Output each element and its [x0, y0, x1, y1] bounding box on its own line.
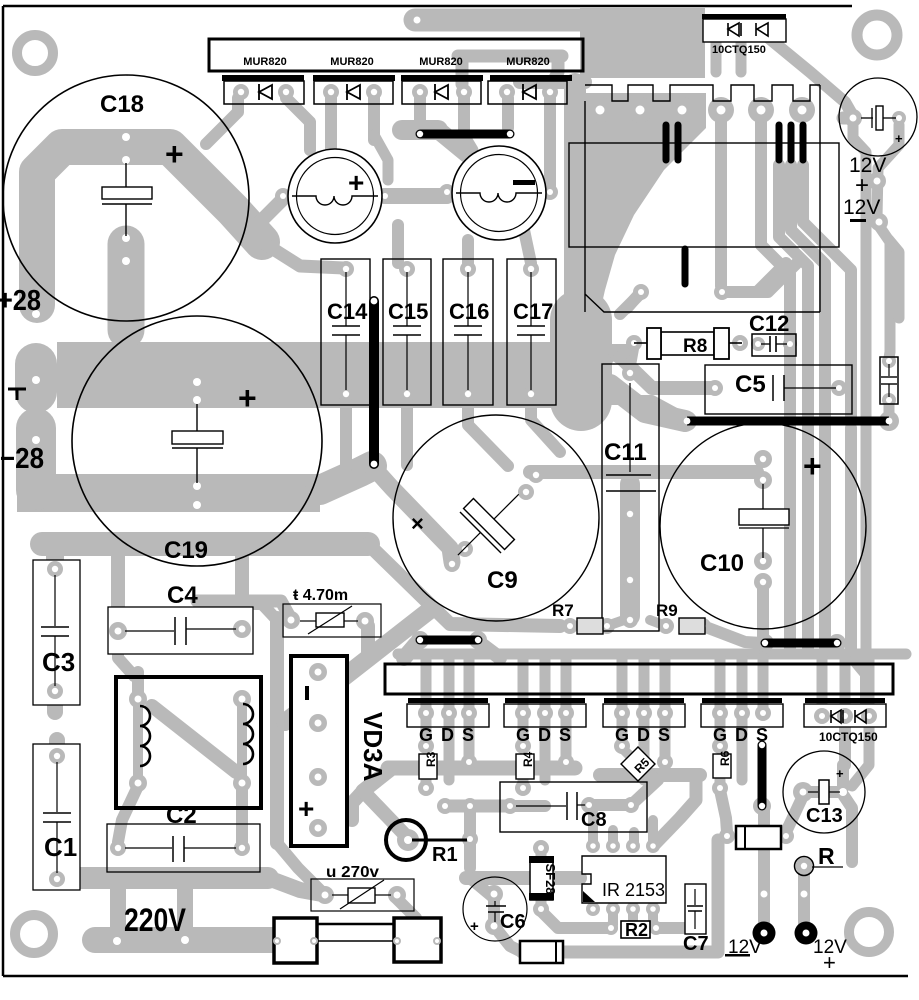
capacitor C7 [683, 884, 709, 955]
wire C8 pads to IR pins [588, 812, 598, 844]
wire between rectifier circles [385, 188, 447, 204]
svg-text:IR 2153: IR 2153 [602, 880, 665, 900]
svg-text:MUR820: MUR820 [243, 56, 286, 68]
wire IR bottom pins [608, 909, 618, 925]
svg-text:S: S [462, 725, 474, 745]
wire T pads down to C2 [118, 786, 138, 842]
wire band at jumper1 [402, 120, 438, 140]
svg-text:C6: C6 [500, 911, 526, 933]
capacitor C2 [107, 824, 260, 872]
diode SF28 [529, 856, 558, 900]
svg-text:+: + [470, 918, 479, 935]
wire R9 right pad to jumper4 [703, 626, 762, 643]
wire MUR pad6 to - circle [464, 135, 473, 150]
C4 pads [109, 622, 127, 640]
wire varistor right pad to fuse [397, 899, 416, 918]
wire MUR D1 pad1 to arch [206, 98, 238, 144]
wire n-band under diode header [458, 50, 562, 63]
C5 pads [707, 380, 723, 396]
capacitor right edge small [880, 357, 898, 404]
wire MUR D2 pad2 down [368, 98, 380, 140]
wire MUR D1 pad2 down [286, 98, 310, 150]
wire verticals below C5 through C10 [784, 428, 796, 652]
C13 pads [793, 782, 813, 802]
diode VD3 MUR820 [401, 75, 483, 104]
svg-text:C7: C7 [683, 933, 709, 955]
wire C9 plate band through C11 to C10 [530, 465, 757, 479]
R2 C7 pads [604, 921, 618, 935]
wire MUR D4 pad1 to jumper [502, 98, 514, 128]
wire diode pad to C13 [786, 798, 802, 832]
wire C13 left pad band [806, 786, 838, 798]
svg-text:+: + [895, 131, 903, 146]
wire arch to C14 pad [262, 242, 344, 268]
wire R2 right pad to C7 [656, 922, 686, 934]
transistor VT1 pads block [407, 698, 489, 745]
wire band A taper end [598, 344, 630, 378]
FET pin pads row2 [418, 738, 434, 754]
S4 jumper bottom pad [753, 797, 771, 815]
svg-text:S: S [559, 725, 571, 745]
wire -28 stub [16, 428, 56, 490]
label MUR820 x4 [243, 56, 549, 68]
wire sec bar traces through C5 [779, 165, 808, 425]
svg-text:D: D [538, 725, 551, 745]
10CTQ150 top pads [708, 21, 724, 37]
wire transformer bottom-left blob to band A [550, 320, 612, 400]
jumper wire 3 (long black) [687, 417, 889, 426]
capacitor 12V electrolytic circle [839, 78, 917, 156]
jumper wire 6 (black) [420, 636, 478, 645]
capacitor C12 [749, 311, 796, 356]
svg-text:C17: C17 [513, 299, 553, 324]
wire transformer pin5 down through C5 [761, 115, 790, 425]
wire SF28 pad to R2 row [541, 911, 612, 928]
svg-text:S: S [658, 725, 670, 745]
wire C8 right pad diag up [631, 780, 658, 805]
C6 pads [485, 885, 503, 903]
svg-text:G: G [615, 725, 629, 745]
resistor R4 [516, 751, 535, 779]
wire band B diag to C9 pads [374, 468, 452, 562]
R node pad [796, 858, 813, 875]
wire MUR D4 pad2 down [544, 98, 556, 186]
capacitor C10 symbol [739, 484, 789, 558]
220V pads [106, 930, 128, 952]
jumper wire 5 (S4 black) [758, 745, 767, 806]
svg-text:C15: C15 [388, 299, 428, 324]
wire MUR D3 pad1 to jumper [414, 98, 426, 128]
wire pad row below transformer [620, 292, 642, 314]
C1 pads [49, 748, 65, 764]
resistor R2 [621, 920, 650, 940]
wire C13 right pad up [837, 765, 849, 788]
svg-text:+: + [165, 136, 184, 172]
wire through C6 [488, 898, 500, 922]
wire jumper6 right pad stub [480, 643, 500, 658]
wire MUR D3 pad2 down [458, 98, 470, 140]
rectifier bridge - (fuse style circle) [452, 146, 546, 240]
wire transformer pin4 down [715, 115, 727, 286]
jumper wire 1 (black) [420, 130, 510, 139]
wire diag to R1 pad [363, 791, 408, 838]
diode VD1 MUR820 [222, 75, 304, 104]
resistor R5 (diamond) [621, 747, 655, 781]
svg-text:C13: C13 [806, 805, 843, 827]
svg-text:D: D [735, 725, 748, 745]
wire 10CTQ150 top pads down [711, 35, 722, 72]
capacitor C1 [33, 744, 80, 890]
wire 12V cap left pad long vertical [853, 122, 866, 688]
wire R6 pad to diode D2 [720, 790, 727, 832]
wire band F stubs to 10CTQ pads [817, 658, 828, 712]
wire SF28 column [536, 852, 547, 905]
svg-text:R7: R7 [552, 601, 574, 620]
transistor VT4 pads block [701, 698, 783, 745]
diode VD2 MUR820 [313, 75, 395, 104]
capacitor C10 outline [660, 423, 866, 629]
via stub pad under jumper2 [362, 452, 386, 476]
wire to C15 pad [392, 225, 404, 263]
wire heatsink stubs to FET pins [421, 658, 432, 710]
coil primary [140, 706, 150, 766]
R8 pads [626, 335, 642, 351]
wire 12V cap right pad chain [877, 125, 899, 218]
wire connecting column [110, 880, 126, 936]
wire 10CTQ pad down right of C13 [852, 720, 869, 786]
wire VD3A col top link [246, 604, 277, 620]
resistor R1 (wire loop) [386, 820, 467, 866]
svg-text:C12: C12 [749, 311, 789, 336]
wire C14-C17 bottom stubs [340, 400, 352, 468]
jumper wire 2 (black vertical) [369, 301, 379, 464]
wire transformer left vertical [564, 84, 586, 335]
mounting hole top-right [857, 15, 897, 55]
capacitor C11 box [602, 364, 659, 631]
wire C4 left pad to T pad [118, 638, 134, 676]
coil secondary [243, 704, 253, 764]
capacitor C18 outline [3, 75, 249, 321]
capacitor C19 symbol [172, 404, 223, 483]
transformer T pads [129, 690, 147, 708]
wire pads row y806 [445, 800, 510, 813]
wire vertical right of C7 [712, 840, 725, 952]
resistor R7 body [577, 618, 603, 634]
wire C10 bottom pads to jumper4 [757, 586, 769, 640]
diode near C13 [736, 826, 781, 849]
svg-text:+: + [238, 380, 257, 416]
svg-text:MUR820: MUR820 [506, 56, 549, 68]
diode symbols in MUR820 boxes [259, 84, 536, 100]
diode D pads [719, 828, 735, 844]
svg-text:C5: C5 [735, 371, 766, 398]
right cap pads [882, 354, 896, 368]
wire pad row below transformer [627, 292, 641, 308]
svg-text:10CTQ150: 10CTQ150 [819, 730, 878, 744]
node R (wire link) [795, 843, 844, 876]
C14-C17 pads [338, 261, 354, 277]
wire C8 left internal [510, 800, 545, 812]
svg-text:D: D [637, 725, 650, 745]
terminal 12V+ (black pad) [795, 922, 818, 945]
svg-text:R6: R6 [718, 750, 732, 766]
wire C18 bottom stub [108, 244, 145, 330]
transistor VT3 pads block [603, 698, 685, 745]
capacitor C6 [463, 877, 527, 941]
svg-text:+: + [803, 448, 822, 484]
wire diag inside T [152, 706, 236, 772]
resistor R9 body [679, 618, 705, 634]
wire 220V pad column [177, 888, 193, 934]
resistor R8 [634, 328, 742, 359]
capacitor C13 [783, 751, 865, 833]
wire band B corner to via stub [320, 466, 372, 490]
transformer TR outer outline (castellated) [585, 85, 820, 312]
svg-text:ŧ 4.70m: ŧ 4.70m [293, 587, 348, 604]
svg-text:+28: +28 [0, 285, 41, 317]
svg-text:−28: −28 [0, 443, 44, 475]
wire to C6 top pad [470, 878, 494, 898]
wire C11 internal vertical [620, 484, 640, 616]
pads near C8 [437, 798, 453, 814]
svg-text:R9: R9 [656, 601, 678, 620]
C3 pads [47, 561, 63, 577]
wire 4.70m right pad down [361, 626, 375, 660]
VD3A pads [309, 663, 327, 681]
svg-text:10CTQ150: 10CTQ150 [712, 44, 766, 56]
wire diag bundle C9 to transformer T [285, 610, 430, 722]
wire stubs below gate resistors [421, 780, 432, 788]
capacitor C3 [33, 560, 80, 705]
capacitor C14 [321, 259, 370, 405]
fuse FU1 [274, 918, 441, 963]
svg-text:R4: R4 [521, 751, 535, 767]
wire T pads up [132, 672, 144, 697]
svg-text:C1: C1 [44, 832, 77, 862]
svg-text:G: G [713, 725, 727, 745]
wire band E under FETs [388, 761, 575, 776]
svg-text:R: R [818, 843, 835, 869]
10CTQ150 bottom pads [814, 708, 830, 724]
svg-text:R8: R8 [683, 336, 707, 357]
jumper4 end pads [756, 634, 774, 652]
svg-text:C3: C3 [42, 647, 75, 677]
wire R8 pad to C11 top pad [630, 346, 634, 368]
wire transformer pin6 down right of C5 [803, 165, 851, 418]
capacitor C9 diagonal symbol [437, 474, 539, 576]
capacitor C8 [500, 782, 647, 832]
wire band C to C4 right pad [235, 550, 249, 623]
svg-text:+: + [855, 172, 869, 199]
wire band C to C4 left pad [111, 550, 125, 625]
svg-text:+: + [836, 766, 844, 781]
diode pair 10CTQ150 bottom [804, 698, 886, 744]
svg-text:G: G [419, 725, 433, 745]
mounting hole top-left [17, 35, 53, 71]
wire R7 right pad link [607, 620, 624, 626]
wire band A diag to C5 left pad [615, 352, 713, 388]
ground symbol [8, 389, 26, 400]
wire jumper6 left pad stub [404, 644, 416, 658]
wire band F above heatsink [398, 649, 906, 660]
wire top blob above transformer [580, 8, 705, 78]
SF28 pads [533, 840, 549, 856]
svg-text:VD3A: VD3A [358, 712, 388, 782]
C10 pads [754, 450, 772, 468]
wire to C17 pad [524, 230, 531, 263]
wire MUR D2 pad1 down [325, 98, 337, 152]
wire R5 leads [622, 748, 658, 780]
varistor box [311, 879, 414, 911]
wire C3 top stub [46, 552, 64, 572]
wire band C (C3 to R7 trace) [42, 532, 368, 556]
wire IR pin4 diag [653, 780, 696, 846]
wire 4.70m left pad link [197, 601, 291, 619]
capacitor C15 [383, 259, 431, 405]
wire VD3A col bottom link [277, 843, 322, 892]
VD3A minus mark [305, 686, 309, 700]
wire thin band to jumper3 pad [468, 400, 687, 419]
jumper3 end pads [677, 411, 697, 431]
12V cap symbol [861, 106, 896, 130]
wire R1 pad line end column [464, 806, 476, 808]
svg-text:C9: C9 [487, 567, 518, 594]
wire C1 top stub [49, 740, 65, 752]
IR2153 pin pads [586, 839, 600, 853]
capacitor C17 [507, 259, 556, 405]
resistor R3 [419, 751, 438, 779]
wire 12V cap left stub [843, 112, 852, 125]
wire band E2 [600, 768, 700, 782]
wire transformer interior blob [585, 93, 706, 312]
capacitor C4 [108, 607, 253, 654]
svg-text:+: + [298, 793, 314, 824]
wire GND stub [15, 364, 57, 392]
capacitor C19 outline [72, 316, 322, 566]
transformer pin pads [587, 97, 613, 123]
inductor L 4.70m box [283, 604, 381, 637]
transformer TR primary bars [666, 125, 803, 284]
12V+ / 12V- top pads [868, 172, 886, 190]
wire S4 jumper bottom to 12V- [758, 810, 770, 930]
jumper wire 4 [765, 639, 837, 648]
R7 R9 pads [562, 618, 578, 634]
svg-text:220V: 220V [124, 902, 187, 938]
wire 12V- pad down right [879, 226, 890, 358]
svg-text:12V: 12V [843, 196, 880, 219]
wire 220V band upper [50, 867, 268, 889]
mounting hole bottom-right [849, 912, 889, 952]
wire FET pin stubs below [421, 716, 432, 746]
wire bottom band extension [688, 946, 716, 959]
wire C18 arch [37, 147, 262, 305]
svg-text:+: + [348, 167, 364, 198]
C9 pads [528, 467, 544, 483]
wire band C diagonal to R7 [368, 544, 560, 626]
svg-text:C2: C2 [166, 802, 197, 829]
C2 pads [110, 840, 126, 856]
wire 10CTQ150 pad to 12V cap [765, 35, 853, 116]
12V electrolytic pads [844, 109, 862, 127]
svg-text:SF28: SF28 [543, 863, 558, 894]
wire rightmost long vertical [889, 240, 899, 318]
svg-text:C4: C4 [167, 582, 198, 609]
IC IR2153 box [582, 856, 666, 903]
transistor VT2 pads block [504, 698, 586, 745]
capacitor C9 outline [393, 415, 599, 621]
transformer TR inner rect [569, 143, 839, 247]
R1 pads [397, 829, 419, 851]
svg-text:MUR820: MUR820 [330, 56, 373, 68]
wire 10CTQ pad down [839, 720, 851, 765]
FET pin pads row1 [418, 705, 434, 721]
C12 pads [751, 337, 765, 351]
svg-text:C10: C10 [700, 550, 744, 577]
terminal 12V- (black pad) [753, 922, 776, 945]
wire band E corner branches [363, 768, 392, 791]
wire C8 right internal [589, 799, 631, 811]
wire T coil verticals [133, 700, 143, 780]
heatsink long rectangle [385, 664, 893, 694]
wire 220V band lower [95, 927, 276, 953]
capacitor C16 [443, 259, 493, 405]
wire right cap to black jumper [884, 404, 895, 418]
svg-text:×: × [411, 511, 424, 536]
svg-text:R2: R2 [625, 920, 648, 940]
svg-text:C16: C16 [449, 299, 489, 324]
wire bottom band to R2 [522, 946, 688, 959]
wire MUR pad4 to + circle [374, 135, 388, 180]
capacitor C18 symbol [102, 163, 152, 236]
wire band A diag to jumper3 left pad [610, 385, 685, 421]
pads of 4.70m inductor [282, 611, 300, 629]
svg-text:G: G [516, 725, 530, 745]
svg-text:C18: C18 [100, 91, 144, 118]
wire top band to transformer blob [415, 9, 590, 32]
diode bottom (near C6) [520, 941, 563, 963]
varistor pads [316, 886, 334, 904]
svg-text:+: + [823, 950, 836, 975]
rectifier bridge + (fuse style circle) [288, 149, 382, 243]
wire band to IR2153 [466, 871, 580, 885]
C11 pads [622, 365, 638, 381]
wire C3 bottom stub [47, 696, 63, 712]
svg-text:R3: R3 [424, 751, 438, 767]
wire band B (-28 band) [17, 474, 320, 512]
svg-text:C14: C14 [327, 299, 368, 324]
long diode header box [209, 39, 583, 71]
mounting hole bottom-left [15, 915, 53, 953]
svg-text:C19: C19 [164, 537, 208, 564]
transformer T (mains) black box [116, 677, 261, 808]
rectifier VD3A box [291, 656, 347, 846]
wire R pad to 12V+ [798, 870, 810, 930]
wire to varistor left pad [268, 878, 322, 894]
wire + circle left pad to C18 arm [258, 199, 283, 224]
svg-text:R1: R1 [432, 844, 458, 866]
resistor R6 [713, 750, 732, 778]
wire left of transformer [520, 75, 585, 89]
capacitor C5 [705, 365, 852, 414]
wire C6 bottom out [494, 926, 522, 952]
wire R9 left pad link [650, 620, 666, 626]
wire VD3A left column [270, 618, 284, 843]
wire band A (main +28 horizontal band) [57, 342, 598, 408]
diode pair 10CTQ150 top [702, 14, 786, 56]
wire to C16 pad [462, 240, 474, 263]
wire C13 right pad down [844, 796, 852, 862]
svg-text:MUR820: MUR820 [419, 56, 462, 68]
